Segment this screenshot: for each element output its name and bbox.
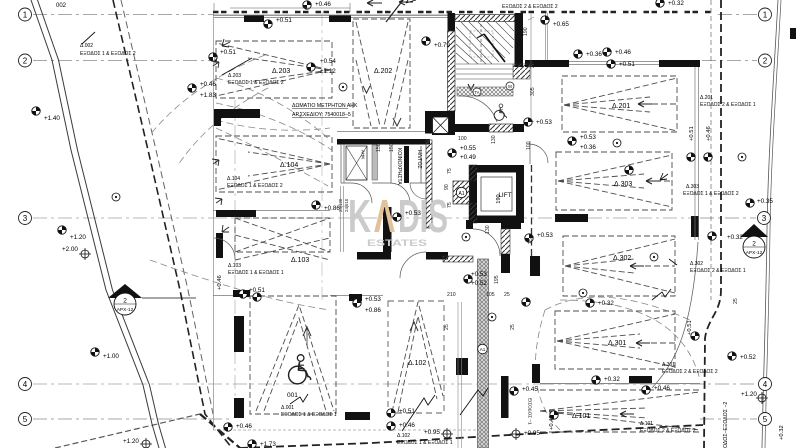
svg-text:+0.51: +0.51	[276, 17, 292, 24]
stair left wall	[448, 13, 456, 31]
svg-text:+0.53: +0.53	[580, 134, 596, 141]
svg-text:ΗΛ/ΓΟΣ: ΗΛ/ΓΟΣ	[416, 150, 422, 169]
wall low mid	[345, 412, 370, 420]
corridor wall bottom left	[357, 252, 391, 260]
svg-text:001: 001	[287, 392, 298, 399]
svg-text:305: 305	[530, 87, 536, 96]
svg-text:+0.46: +0.46	[200, 81, 216, 88]
svg-text:+1.20: +1.20	[741, 391, 757, 398]
svg-text:+0.46: +0.46	[549, 415, 555, 430]
wall W11	[216, 210, 256, 217]
grid circle 5 left	[19, 413, 32, 426]
svg-text:ΕΞΟΔΟΣ 1 & ΕΞΟΔΟΣ 2: ΕΞΟΔΟΣ 1 & ΕΞΟΔΟΣ 2	[228, 80, 284, 86]
small node circles	[339, 83, 347, 91]
wall W1 top A	[244, 16, 264, 23]
svg-text:Δ.201: Δ.201	[700, 95, 713, 101]
grid circle 5 right	[759, 413, 772, 426]
svg-text:+0.35: +0.35	[757, 198, 773, 205]
section marker left	[108, 284, 196, 315]
svg-text:Δ.103: Δ.103	[291, 257, 309, 264]
svg-text:90: 90	[444, 184, 450, 190]
grid circle 2 right	[759, 54, 772, 67]
svg-text:ΑΡΧ-12: ΑΡΧ-12	[746, 250, 763, 256]
svg-text:+0.36: +0.36	[580, 144, 596, 151]
svg-text:+0.65: +0.65	[553, 21, 569, 28]
svg-text:25: 25	[733, 298, 739, 304]
room D.201 dashed	[562, 76, 677, 132]
svg-text:ΚΟΙΝΟΧΡΗΣΤΑ: ΚΟΙΝΟΧΡΗΣΤΑ	[396, 148, 402, 185]
svg-text:190: 190	[523, 27, 529, 36]
closet divider black	[404, 146, 409, 183]
right kerb curve	[652, 242, 698, 388]
svg-text:+0.49: +0.49	[460, 154, 476, 161]
svg-text:ΕΞΟΔΟΣ 1 & ΕΞΟΔΟΣ 1: ΕΞΟΔΟΣ 1 & ΕΞΟΔΟΣ 1	[228, 270, 284, 276]
ramp circle A1	[478, 344, 488, 354]
room D.202 dashed	[353, 19, 410, 128]
svg-text:ΑΡ.ΣΧΕΔΙΟΥ: 7540018−5: ΑΡ.ΣΧΕΔΙΟΥ: 7540018−5	[292, 112, 351, 118]
svg-text:+0.32: +0.32	[779, 425, 785, 440]
svg-text:+0.53: +0.53	[536, 119, 552, 126]
svg-text:2: 2	[763, 57, 768, 66]
svg-text:+0.95: +0.95	[524, 430, 540, 437]
svg-text:2: 2	[752, 241, 756, 248]
wall W12 left pier	[216, 233, 223, 258]
site boundary top	[213, 11, 713, 14]
site turning arcs dashed	[150, 55, 700, 430]
svg-text:ΑΗΚ: ΑΗΚ	[361, 150, 366, 160]
svg-text:+2.00: +2.00	[62, 246, 78, 253]
pier low mid B	[501, 376, 509, 418]
svg-text:130: 130	[491, 135, 497, 144]
svg-text:Δ.303: Δ.303	[686, 184, 699, 190]
svg-text:ΕΞΟΔΟΣ 1 & ΕΞΟΔΟΣ 2: ΕΞΟΔΟΣ 1 & ΕΞΟΔΟΣ 2	[80, 51, 136, 57]
circle M	[506, 82, 514, 90]
room D.102 dashed	[388, 301, 444, 413]
stair treads	[456, 22, 514, 79]
room D.103 dashed	[235, 218, 330, 260]
grid circle 3 left	[19, 212, 32, 225]
wall below lift horizontal	[501, 222, 521, 229]
svg-text:ΕΙΣΟΔΟΣ −1: ΕΙΣΟΔΟΣ −1	[528, 398, 533, 425]
svg-text:210: 210	[447, 292, 456, 298]
column A1	[453, 181, 470, 204]
grey wall strip in AHK	[372, 145, 378, 180]
svg-text:+0.32: +0.32	[604, 376, 620, 383]
svg-text:ΕΞΟΔΟΣ 1 & ΕΞΟΔΟΣ 1: ΕΞΟΔΟΣ 1 & ΕΞΟΔΟΣ 1	[281, 412, 337, 418]
grid circle 1 right	[759, 8, 772, 21]
pier left low B	[234, 398, 244, 418]
pier right of ramp	[530, 256, 540, 276]
corridor edge lines	[458, 302, 462, 448]
svg-text:ΤΑ: ΤΑ	[474, 90, 479, 95]
far right road edge	[762, 0, 778, 448]
svg-text:1: 1	[763, 11, 768, 20]
svg-text:190: 190	[496, 194, 502, 203]
svg-text:ΕΞΟΔΟΣ 2 & ΕΞΟΔΟΣ 2: ΕΞΟΔΟΣ 2 & ΕΞΟΔΟΣ 2	[662, 369, 718, 375]
big wheelchair	[289, 355, 311, 384]
wall below stairs	[455, 124, 489, 132]
svg-text:25: 25	[504, 292, 510, 298]
room D.104 dashed	[216, 136, 332, 192]
svg-text:5: 5	[763, 415, 768, 424]
lift hatch corners	[469, 165, 477, 181]
lobby hatch band	[457, 87, 513, 96]
svg-text:Δ.201: Δ.201	[612, 103, 630, 110]
svg-text:+0.32: +0.32	[668, 0, 684, 7]
svg-text:+0.46: +0.46	[217, 275, 223, 290]
svg-text:24|610: 24|610	[344, 198, 349, 212]
svg-text:+0.46: +0.46	[706, 126, 712, 141]
svg-text:ΕΞΟΔΟΣ 2 & ΕΞΟΔΟΣ 2: ΕΞΟΔΟΣ 2 & ΕΞΟΔΟΣ 2	[640, 428, 696, 434]
right facade double line	[694, 67, 696, 240]
svg-text:ΕΞΟΔΟΣ 2 & ΕΞΟΔΟΣ 2: ΕΞΟΔΟΣ 2 & ΕΞΟΔΟΣ 2	[502, 4, 558, 10]
svg-text:Α1: Α1	[480, 347, 486, 352]
svg-text:Δ.203: Δ.203	[228, 73, 241, 79]
svg-text:Δ.303: Δ.303	[614, 181, 632, 188]
svg-text:2: 2	[123, 298, 127, 305]
wall nub left mid	[233, 290, 250, 297]
svg-text:+0.51: +0.51	[687, 320, 693, 335]
svg-text:+0.45: +0.45	[522, 386, 538, 393]
svg-text:130: 130	[485, 225, 491, 234]
svg-text:5: 5	[23, 415, 28, 424]
svg-text:+0.51: +0.51	[249, 287, 265, 294]
svg-text:+0.52: +0.52	[471, 280, 487, 287]
svg-text:+0.32: +0.32	[598, 300, 614, 307]
grid line 2	[33, 60, 213, 62]
svg-text:+0.55: +0.55	[460, 145, 476, 152]
wall below lift vertical	[466, 220, 473, 229]
svg-text:2: 2	[23, 57, 28, 66]
svg-text:150: 150	[389, 143, 395, 152]
svg-text:+0.54: +0.54	[320, 58, 336, 65]
svg-text:24|120: 24|120	[338, 198, 343, 212]
grid line 4	[33, 383, 540, 385]
lift shaft	[469, 165, 524, 223]
svg-text:75: 75	[447, 202, 453, 208]
grid line 3	[33, 217, 698, 219]
circle TA	[473, 88, 481, 96]
svg-text:ΟΔΟΣ−ΕΞΟΔΟΣ −2: ΟΔΟΣ−ΕΞΟΔΟΣ −2	[723, 402, 729, 448]
room D.001 entrance dashed	[250, 296, 336, 414]
svg-text:+1.00: +1.00	[103, 353, 119, 360]
road double line	[31, 0, 166, 448]
lift inner rect	[481, 177, 512, 211]
svg-text:+0.53: +0.53	[405, 210, 421, 217]
svg-text:+0.95: +0.95	[424, 429, 440, 436]
vertical room texts	[361, 148, 730, 448]
wall W20	[555, 214, 588, 222]
dimension texts rotated	[213, 27, 739, 330]
svg-text:+0.46: +0.46	[615, 49, 631, 56]
svg-text:+1.20: +1.20	[123, 438, 139, 445]
wall W2 top B	[329, 16, 351, 23]
svg-text:1: 1	[23, 11, 28, 20]
lobby door arc	[459, 96, 497, 122]
svg-text:ESTATES: ESTATES	[367, 238, 427, 249]
section marker right	[740, 224, 768, 258]
pier by ramp corridor	[456, 358, 468, 375]
svg-text:4: 4	[763, 380, 768, 389]
meter room wall	[337, 139, 430, 145]
site boundary bottom	[240, 425, 703, 448]
svg-text:+0.51: +0.51	[689, 126, 695, 141]
svg-text:Δ.203: Δ.203	[272, 68, 290, 75]
pier W19	[691, 216, 699, 237]
stair dim line	[528, 14, 534, 125]
facade thin lines	[213, 15, 699, 430]
svg-text:Δ.104: Δ.104	[280, 162, 298, 169]
pier left low A	[234, 316, 244, 352]
site boundary right	[704, 0, 721, 448]
svg-text:Δ.302: Δ.302	[613, 255, 631, 262]
svg-text:+1.73: +1.73	[260, 441, 276, 448]
grid circle 4 right	[759, 378, 772, 391]
svg-text:ΕΞΟΔΟΣ 2 & ΕΞΟΔΟΣ 1: ΕΞΟΔΟΣ 2 & ΕΞΟΔΟΣ 1	[690, 268, 746, 274]
room D.203 dashed	[216, 41, 332, 98]
building left facade line	[213, 13, 215, 430]
svg-text:+0.32: +0.32	[727, 234, 743, 241]
svg-text:±1.12: ±1.12	[320, 68, 336, 75]
svg-text:+1.83: +1.83	[200, 92, 216, 99]
svg-text:K: K	[348, 190, 371, 242]
svg-text:Δ.301: Δ.301	[608, 340, 626, 347]
room D.301 dashed	[555, 311, 675, 369]
svg-text:+0.79: +0.79	[434, 42, 450, 49]
balcony dashed line	[531, 165, 533, 256]
hatched sill	[443, 256, 473, 262]
svg-text:+0.53: +0.53	[365, 296, 381, 303]
north wall black R	[659, 60, 700, 67]
top dim line	[230, 7, 350, 9]
svg-text:ΕΞΟΔΟΣ 1 & ΕΞΟΔΟΣ 1: ΕΞΟΔΟΣ 1 & ΕΞΟΔΟΣ 1	[397, 440, 453, 446]
svg-text:3: 3	[762, 214, 767, 223]
edge box right	[790, 28, 796, 39]
stair up-line	[484, 34, 505, 62]
svg-text:ΕΞΟΔΟΣ 2 & ΕΞΟΔΟΣ 1: ΕΞΟΔΟΣ 2 & ΕΞΟΔΟΣ 1	[700, 102, 756, 108]
svg-text:Δ.101: Δ.101	[572, 413, 590, 420]
svg-text:Μ: Μ	[508, 84, 512, 89]
watermark	[348, 190, 448, 249]
corridor wall bottom right	[426, 252, 448, 260]
closet divider lines	[391, 146, 421, 183]
svg-text:+0.53: +0.53	[471, 271, 487, 278]
top right wall edge lines	[546, 13, 548, 60]
north wall black L	[525, 60, 569, 67]
grid circle 3 right	[758, 212, 771, 225]
svg-text:+1.20: +1.20	[70, 234, 86, 241]
svg-text:Δ.302: Δ.302	[690, 261, 703, 267]
room D.302 dashed	[563, 236, 675, 296]
svg-text:+0.51: +0.51	[619, 61, 635, 68]
svg-text:+0.46: +0.46	[236, 423, 252, 430]
svg-text:+0.86: +0.86	[365, 307, 381, 314]
svg-text:105: 105	[486, 292, 495, 298]
pier below lift hatched	[501, 229, 510, 254]
svg-text:25: 25	[530, 62, 536, 68]
AHK T-wall	[214, 109, 260, 126]
svg-text:Δ.103: Δ.103	[228, 263, 241, 269]
room D.101 dashed	[540, 390, 700, 432]
leader zigzags	[82, 0, 677, 431]
svg-text:+0.46: +0.46	[654, 385, 670, 392]
svg-text:Δ.001: Δ.001	[281, 405, 294, 411]
svg-text:3: 3	[23, 214, 28, 223]
svg-text:Δ.102: Δ.102	[397, 433, 410, 439]
svg-text:Δ.101: Δ.101	[640, 421, 653, 427]
stair right wall	[515, 13, 524, 67]
escape arrows misc	[212, 39, 495, 232]
svg-text:+0.51: +0.51	[220, 49, 236, 56]
svg-text:25: 25	[510, 324, 516, 330]
grid circle 4 left	[19, 378, 32, 391]
grid column lines	[234, 100, 236, 418]
wall nub center mid	[349, 294, 362, 301]
svg-text:150: 150	[376, 143, 382, 152]
svg-text:ΕΞΟΔΟΣ 1 & ΕΞΟΔΟΣ 2: ΕΞΟΔΟΣ 1 & ΕΞΟΔΟΣ 2	[683, 191, 739, 197]
shaft block	[425, 111, 455, 135]
svg-text:+0.53: +0.53	[537, 232, 553, 239]
pier low right	[532, 364, 540, 383]
left block inner facade	[341, 186, 344, 252]
svg-text:+1.40: +1.40	[44, 115, 60, 122]
hatched wall by lift lobby	[426, 140, 432, 228]
svg-text:Δ.102: Δ.102	[408, 360, 426, 367]
svg-text:+0.46: +0.46	[315, 1, 331, 8]
svg-text:Δ.301: Δ.301	[662, 362, 675, 368]
svg-text:25: 25	[528, 238, 534, 244]
door arcs meter room	[214, 141, 548, 278]
wall W21 row4	[629, 376, 652, 384]
svg-text:Δ.104: Δ.104	[227, 176, 240, 182]
stair top wall hatched	[455, 15, 515, 22]
AHK closet boxes	[346, 146, 367, 180]
corridor L wall vertical	[383, 207, 392, 252]
svg-text:Λ: Λ	[374, 190, 395, 242]
svg-text:100: 100	[526, 141, 532, 150]
ramp strip	[478, 259, 489, 448]
svg-text:100: 100	[458, 136, 467, 142]
vertical elevation texts	[217, 126, 785, 440]
svg-text:4: 4	[23, 380, 28, 389]
room D.303 dashed	[556, 152, 672, 210]
hatched jog right of stairs	[513, 64, 530, 79]
svg-text:Δ.202: Δ.202	[374, 68, 392, 75]
svg-text:ΑΡΧ-12: ΑΡΧ-12	[117, 307, 134, 313]
svg-text:Α1: Α1	[458, 191, 464, 197]
svg-text:ΔΩΜΑΤΙΟ ΜΕΤΡΗΤΩΝ ΑΗΚ: ΔΩΜΑΤΙΟ ΜΕΤΡΗΤΩΝ ΑΗΚ	[292, 103, 358, 109]
svg-text:195: 195	[494, 275, 500, 284]
svg-text:002: 002	[56, 3, 67, 9]
svg-text:25: 25	[444, 324, 450, 330]
small wheelchair by lift	[494, 104, 506, 120]
svg-text:+0.36: +0.36	[586, 51, 602, 58]
svg-text:75: 75	[447, 168, 453, 174]
svg-text:ΕΞΟΔΟΣ 1 & ΕΞΟΔΟΣ 2: ΕΞΟΔΟΣ 1 & ΕΞΟΔΟΣ 2	[227, 183, 283, 189]
grid line 5	[33, 418, 230, 420]
svg-text:+0.52: +0.52	[740, 354, 756, 361]
pier below lift black	[501, 254, 510, 273]
grid circle 2 left	[19, 54, 32, 67]
